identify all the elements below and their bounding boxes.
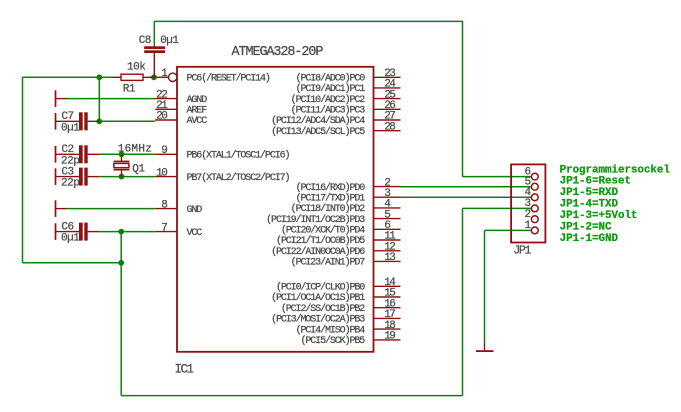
ground symbol (C3): [55, 168, 57, 185]
svg-text:(PCI5/SCK)PB5: (PCI5/SCK)PB5: [300, 335, 365, 347]
svg-text:(PCI0/ICP/CLKO)PB0: (PCI0/ICP/CLKO)PB0: [276, 282, 365, 294]
IC IC1 ATMEGA328-20P body: [175, 45, 374, 377]
svg-text:(PCI21/T1/OC0B)PD5: (PCI21/T1/OC0B)PD5: [276, 235, 365, 247]
wire VCC vertical to bottom rail: [120, 232, 122, 396]
svg-text:0µ1: 0µ1: [160, 35, 179, 47]
svg-text:Q1: Q1: [132, 164, 145, 176]
IC1 right pin labels: [266, 73, 365, 348]
ground symbol (C2): [55, 146, 57, 163]
svg-text:8: 8: [161, 199, 167, 211]
JP1 pin 3: [524, 198, 538, 212]
svg-text:(PCI22/AIN0OC0A)PD6: (PCI22/AIN0OC0A)PD6: [271, 246, 365, 258]
JP1 pin 2: [524, 209, 538, 223]
svg-text:(PCI3/MOSI/OC2A)PB3: (PCI3/MOSI/OC2A)PB3: [271, 314, 365, 326]
svg-text:7: 7: [161, 222, 167, 234]
capacitor C7: [56, 111, 99, 134]
svg-text:(PCI9/ADC1)PC1: (PCI9/ADC1)PC1: [296, 83, 366, 95]
svg-text:(PCI4/MISO)PB4: (PCI4/MISO)PB4: [296, 324, 366, 336]
junction dots: [96, 74, 156, 265]
wire VCC net: [99, 231, 155, 233]
wire R1 to C7/AVCC vertical: [98, 77, 100, 121]
svg-text:9: 9: [161, 145, 167, 157]
svg-text:28: 28: [384, 121, 395, 133]
wire XTAL2 net: [99, 176, 155, 178]
svg-text:ATMEGA328-20P: ATMEGA328-20P: [232, 45, 324, 60]
svg-text:(PCI12/ADC4/SDA)PC4: (PCI12/ADC4/SDA)PC4: [271, 115, 365, 127]
svg-text:C8: C8: [139, 35, 151, 47]
svg-text:0µ1: 0µ1: [61, 122, 80, 134]
ground symbol (JP1 pin1 net): [476, 343, 494, 352]
svg-text:(PCI17/TXD)PD1: (PCI17/TXD)PD1: [296, 192, 366, 204]
annotation text: Programmiersockel pinout: [560, 165, 671, 245]
capacitor C8: [139, 35, 180, 77]
wire vertical drop to JP1 pin6 (Reset): [463, 21, 532, 177]
svg-text:GND: GND: [187, 205, 203, 216]
capacitor C6: [56, 221, 99, 244]
svg-text:VCC: VCC: [187, 228, 203, 239]
svg-text:JP1-2=NC: JP1-2=NC: [560, 222, 612, 234]
svg-text:C6: C6: [61, 221, 73, 233]
svg-text:R1: R1: [123, 83, 136, 95]
svg-text:JP1-5=RXD: JP1-5=RXD: [560, 187, 619, 199]
capacitor C3: [56, 166, 99, 189]
svg-text:JP1: JP1: [513, 245, 531, 258]
svg-text:JP1-6=Reset: JP1-6=Reset: [560, 176, 631, 188]
svg-text:16MHz: 16MHz: [118, 144, 153, 156]
svg-text:C2: C2: [61, 144, 73, 156]
wire +5V bottom rail: [121, 395, 462, 397]
JP1 pin 5: [524, 177, 538, 191]
wire AVCC net: [99, 120, 155, 122]
svg-text:(PCI23/AIN1)PD7: (PCI23/AIN1)PD7: [291, 257, 366, 269]
wire left +5V rail: [23, 77, 122, 262]
svg-text:AGND: AGND: [187, 95, 208, 106]
wire +5V top rail (C8 to JP1-6 drop): [154, 20, 462, 22]
svg-text:19: 19: [384, 331, 395, 343]
svg-text:PB6(XTAL1/TOSC1/PCI6): PB6(XTAL1/TOSC1/PCI6): [187, 150, 290, 162]
ground symbol (GND pin 8): [55, 200, 67, 217]
svg-text:C3: C3: [61, 166, 73, 178]
wire RXD net PD0 to JP1-5: [401, 186, 532, 188]
svg-text:JP1-4=TXD: JP1-4=TXD: [560, 199, 619, 211]
wire AGND net: [66, 98, 155, 100]
wire GND pin8 net: [66, 208, 155, 210]
svg-text:(PCI1/OC1A/OC1S)PB1: (PCI1/OC1A/OC1S)PB1: [271, 292, 365, 304]
svg-text:(PCI11/ADC3)PC3: (PCI11/ADC3)PC3: [291, 105, 366, 117]
svg-text:IC1: IC1: [175, 363, 194, 377]
ground symbol (C7): [55, 113, 57, 130]
svg-text:10: 10: [156, 167, 167, 179]
JP1 pin 4: [524, 187, 538, 201]
wire +5V riser to JP1 pin3: [463, 208, 532, 395]
wire GND net JP1-1: [485, 230, 532, 343]
svg-text:JP1-3=+5Volt: JP1-3=+5Volt: [560, 210, 638, 222]
svg-text:PB7(XTAL2/TOSC2/PCI7): PB7(XTAL2/TOSC2/PCI7): [187, 172, 290, 184]
svg-text:10k: 10k: [127, 62, 146, 74]
svg-text:PC6(/RESET/PCI14): PC6(/RESET/PCI14): [187, 73, 270, 85]
JP1 pin 6: [524, 166, 538, 180]
capacitor C2: [56, 144, 99, 167]
svg-text:(PCI16/RXD)PD0: (PCI16/RXD)PD0: [296, 182, 366, 194]
svg-text:22p: 22p: [61, 178, 79, 190]
IC1 left pin labels: [187, 73, 290, 239]
svg-text:20: 20: [156, 111, 167, 123]
svg-text:AREF: AREF: [187, 106, 208, 117]
IC1 left pin stubs and numbers: [155, 68, 177, 234]
wire TXD net PD1 to JP1-4: [401, 196, 532, 198]
resistor R1: [111, 62, 154, 96]
IC1 right pin stubs and numbers: [374, 68, 401, 343]
svg-text:13: 13: [384, 252, 395, 264]
svg-text:C7: C7: [61, 111, 73, 123]
wire RESET net left of R1: [23, 76, 112, 78]
svg-text:2: 2: [524, 209, 530, 221]
svg-text:JP1-1=GND: JP1-1=GND: [560, 233, 619, 245]
ground symbol (C6): [55, 223, 57, 240]
svg-text:(PCI19/INT1/OC2B)PD3: (PCI19/INT1/OC2B)PD3: [266, 214, 365, 226]
svg-text:(PCI10/ADC2)PC2: (PCI10/ADC2)PC2: [291, 94, 366, 106]
wire C8 top lead net: [153, 21, 155, 46]
svg-text:(PCI18/INT0)PD2: (PCI18/INT0)PD2: [291, 203, 366, 215]
crystal Q1: [114, 144, 153, 177]
wire XTAL1 net: [99, 153, 155, 155]
svg-text:(PCI2/SS/OC1B)PB2: (PCI2/SS/OC1B)PB2: [281, 303, 365, 315]
connector JP1 body: [511, 164, 545, 257]
JP1 pin 1: [524, 220, 538, 234]
svg-text:(PCI8/ADC0)PC0: (PCI8/ADC0)PC0: [296, 73, 366, 85]
IC1 pin 1 inversion bubble: [169, 73, 177, 81]
svg-text:0µ1: 0µ1: [61, 233, 80, 245]
svg-text:(PCI13/ADC5/SCL)PC5: (PCI13/ADC5/SCL)PC5: [271, 126, 365, 138]
svg-text:(PCI20/XCK/T0)PD4: (PCI20/XCK/T0)PD4: [281, 225, 365, 237]
svg-text:AVCC: AVCC: [187, 116, 208, 127]
ground symbol (AGND): [55, 90, 67, 107]
